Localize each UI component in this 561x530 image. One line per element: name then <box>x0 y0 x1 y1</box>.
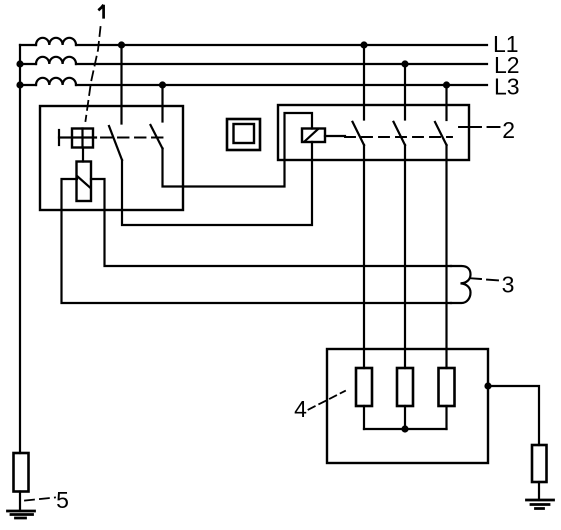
wire left bus vertical <box>19 45 21 453</box>
wire L2 horizontal <box>20 63 487 65</box>
box resistor bank 4 <box>327 349 488 463</box>
crossed square actuator <box>72 129 96 148</box>
mechanical link contactor <box>345 136 452 138</box>
release coil K1 <box>77 162 92 202</box>
svg-text:4: 4 <box>294 396 307 422</box>
leader line to 4 <box>309 391 346 410</box>
wire L1 to contactor pole 1 <box>363 45 365 120</box>
wire contact 1 to contactor coil <box>122 142 312 225</box>
wire L3 to contact 2 <box>161 85 163 122</box>
leader line to 2 <box>459 126 500 128</box>
wire L3 to contactor pole 3 <box>445 85 447 120</box>
star point bar <box>364 428 447 430</box>
wire R1 to star bar <box>363 406 365 429</box>
coil 3 winding humps <box>451 266 471 303</box>
ground right <box>527 500 554 509</box>
inductor on L1 <box>36 38 76 45</box>
wire coil left terminal to lower bus <box>62 179 452 303</box>
ground left <box>8 511 35 518</box>
contactor pole 3 blade <box>435 122 447 145</box>
wire L3 horizontal <box>20 84 487 86</box>
wire L1 to contact 1 <box>120 45 122 124</box>
contactor pole 1 blade <box>353 122 365 145</box>
contact 1 blade <box>109 126 122 160</box>
wire pole 3 down to resistor bank <box>445 145 447 368</box>
resistor R1 <box>356 368 372 406</box>
resistor R2 <box>397 368 413 406</box>
contact 2 blade <box>151 125 163 149</box>
svg-text:3: 3 <box>502 272 515 298</box>
manual actuator tick <box>58 130 60 145</box>
leader line to 3 <box>471 278 498 280</box>
label 1 <box>98 5 103 19</box>
wire coil right terminal to upper bus <box>91 179 451 266</box>
wire resistor to ground left <box>19 492 21 512</box>
node star point <box>401 425 408 432</box>
svg-text:L3: L3 <box>494 74 520 100</box>
wire L1 horizontal <box>20 44 487 46</box>
contactor pole 2 blade <box>394 122 406 145</box>
resistor R3 <box>439 368 455 406</box>
wire resistor to ground right <box>538 482 540 500</box>
wire frame tap to earthing resistor <box>488 386 539 445</box>
leader line to 5 <box>25 498 55 501</box>
box contactor 2 <box>278 105 469 160</box>
earthing resistor left <box>14 453 29 492</box>
svg-text:2: 2 <box>502 117 515 143</box>
wire L2 to contactor pole 2 <box>404 64 406 120</box>
box device 1 <box>40 106 183 210</box>
inductor on L2 <box>36 57 76 64</box>
svg-text:5: 5 <box>56 487 69 513</box>
node left bus / L2 <box>16 60 23 67</box>
wire coil K2 link <box>325 135 345 137</box>
earthing resistor right <box>532 445 547 482</box>
node L3 / pole 3 <box>443 81 450 88</box>
inductor on L3 <box>36 78 76 85</box>
mechanical link device 1 <box>101 137 163 139</box>
wire pole 2 down to resistor bank <box>404 145 406 368</box>
wire actuator to release coil <box>82 148 84 162</box>
leader line to 1 <box>86 27 101 121</box>
wire contact 2 to contactor coil top <box>163 113 313 187</box>
node left bus / L3 <box>16 81 23 88</box>
node L1 / pole 1 <box>360 41 367 48</box>
node L1 / contact 1 <box>118 41 125 48</box>
indicator square symbol <box>227 119 260 150</box>
node box 4 frame tap <box>484 382 491 389</box>
wire R3 to star bar <box>445 406 447 429</box>
actuator lever wire <box>59 136 72 138</box>
contactor coil K2 <box>302 129 325 143</box>
wire pole 1 down to resistor bank <box>363 145 365 368</box>
node L3 / contact 2 <box>159 81 166 88</box>
node L2 / pole 2 <box>401 60 408 67</box>
wire R2 to star bar <box>404 406 406 429</box>
